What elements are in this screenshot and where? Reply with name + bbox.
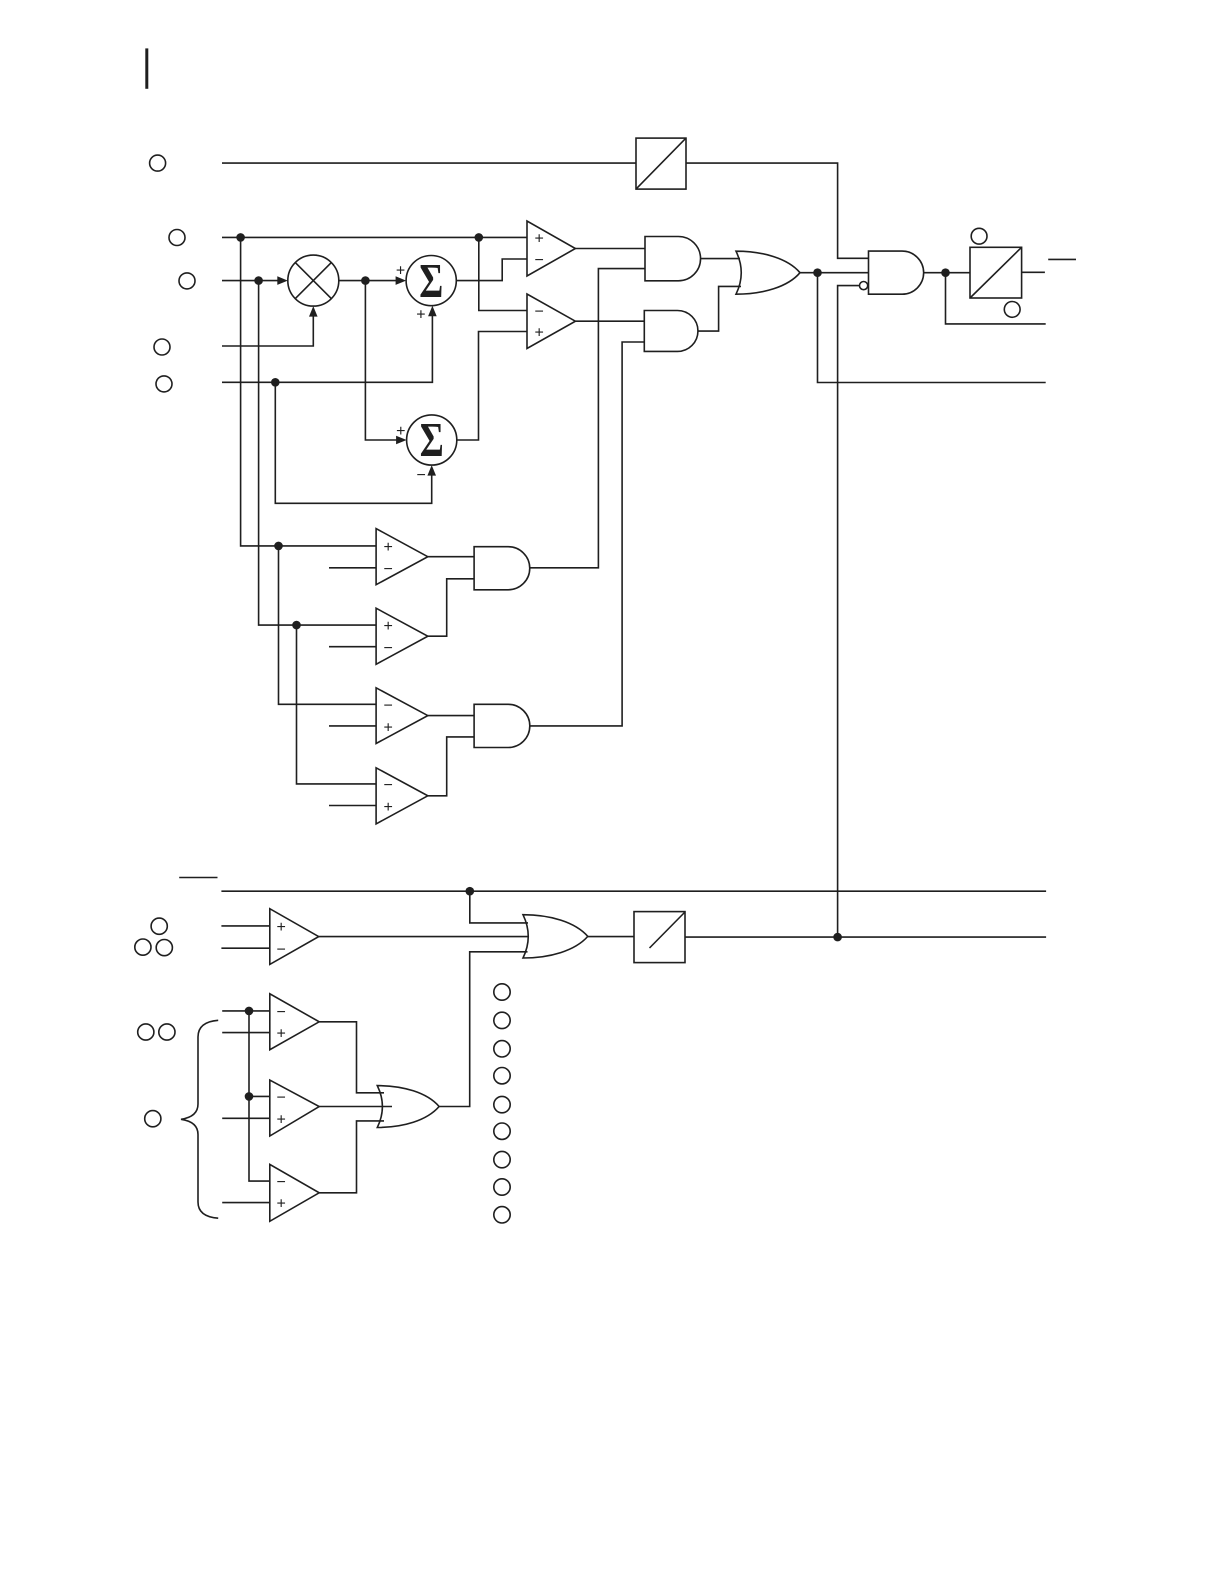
wire: A1 output to OR gate O1 [701, 258, 741, 260]
stub: K4 minus reference input [329, 646, 376, 648]
wire: K5 output to AND gate A4 [428, 715, 474, 717]
terminal circle [135, 939, 151, 955]
wire: T4 to M1 bottom input with arrow [222, 306, 318, 346]
wire: A4 output to A2 lower input [530, 342, 645, 726]
junction dot [475, 233, 484, 242]
terminal circle T2 [169, 230, 185, 246]
wire: K9 output to O3 middle input [319, 1106, 392, 1108]
comparator K4 [376, 608, 428, 664]
NAND gate U1 with inverted input [860, 251, 924, 294]
wire: junction to comparator K9 minus input [249, 1095, 270, 1097]
wire: O1 output to NAND U1 middle input [800, 272, 869, 274]
terminal circle column 8 [494, 1179, 510, 1195]
stub: K6 plus reference input [329, 805, 376, 807]
svg-text:−: − [417, 467, 426, 484]
svg-text:−: − [277, 1004, 286, 1021]
wire: B1 output to NAND U1 top input [686, 163, 869, 258]
wire: K3 output to AND gate A3 [428, 556, 474, 558]
terminal circle column 1 [494, 984, 510, 1000]
svg-text:+: + [277, 919, 286, 936]
terminal circle [145, 1111, 161, 1127]
junction dot [271, 378, 280, 387]
svg-text:−: − [535, 304, 544, 321]
junction dot [292, 621, 301, 630]
terminal circle T4 [154, 339, 170, 355]
wire: K9 plus input [222, 1117, 270, 1119]
junction dot [254, 276, 263, 285]
wire: K4 output to A3 lower input [428, 579, 474, 636]
wire: O2 output to timer block B3 [588, 936, 634, 938]
terminal circle column 9 [494, 1207, 510, 1223]
comparator K5 [376, 688, 428, 744]
svg-text:+: + [384, 618, 393, 635]
wire: K6 output to A4 lower input [428, 737, 474, 796]
terminal circle [138, 1024, 154, 1040]
wire: long bus line [221, 890, 1046, 892]
timer block B2 [970, 247, 1022, 298]
terminal circle above B2 [971, 228, 987, 244]
wire: T3 to multiplier M1 with arrow [222, 276, 288, 285]
junction dot [941, 268, 950, 277]
svg-text:+: + [396, 423, 405, 440]
wire: junction to comparator K2 minus input [479, 237, 527, 310]
summator S1 [396, 253, 456, 324]
stub: K3 minus reference input [329, 567, 376, 569]
OR gate O2 [523, 915, 588, 958]
junction dot [361, 276, 370, 285]
comparator K1 [527, 221, 575, 276]
comparator K6 [376, 768, 428, 824]
wire: K8 output to OR gate O3 top input [319, 1022, 384, 1093]
terminal circle column 2 [494, 1012, 510, 1028]
AND gate A3 [474, 547, 530, 590]
svg-text:−: − [384, 561, 393, 578]
wire: junction down to comparator K10 minus input [249, 1011, 270, 1181]
comparator K2 [527, 294, 575, 349]
junction dot [466, 887, 475, 896]
junction dot [245, 1092, 254, 1101]
wire: K10 plus input [222, 1202, 270, 1204]
OR gate O3 [377, 1086, 439, 1128]
wire: junction to comparator K3 plus input [241, 237, 377, 546]
terminal circle [151, 918, 167, 934]
AND gate A1 [645, 237, 701, 281]
dash segment [179, 877, 217, 879]
svg-text:−: − [277, 941, 286, 958]
comparator K7 [270, 909, 319, 965]
wire: S2 output to comparator K2 plus input [457, 332, 527, 441]
svg-text:−: − [277, 1174, 286, 1191]
timer block B3 [634, 912, 685, 963]
terminal circle column 3 [494, 1041, 510, 1057]
wire: K8 plus input [222, 1032, 270, 1034]
wire: U1 output branch down to right [946, 273, 1046, 324]
wire: junction to comparator K6 minus input [297, 625, 377, 784]
wire: junction to comparator K5 minus input [279, 546, 377, 704]
comparator K3 [376, 529, 428, 585]
timer block B1 [636, 138, 686, 189]
wire: timer B3 output to U1 inverted input [838, 286, 860, 938]
terminal circle T5 [156, 376, 172, 392]
brace for setting group inputs [181, 1020, 218, 1218]
stub: K7 plus input [221, 925, 269, 927]
comparator K10 [270, 1164, 319, 1221]
wire: K8 minus input [222, 1010, 270, 1012]
wire: K1 output to AND gate A1 [575, 248, 645, 250]
svg-text:−: − [384, 640, 393, 657]
wire: junction to summator S2 left input with arrow [365, 281, 406, 445]
wire: K10 output to O3 bottom input [319, 1121, 384, 1193]
comparator K9 [270, 1080, 319, 1136]
terminal circle [156, 940, 172, 956]
wire: O3 output to O2 lower input [439, 952, 527, 1107]
junction dot [245, 1007, 254, 1016]
svg-text:+: + [277, 1196, 286, 1213]
svg-text:+: + [384, 719, 393, 736]
wire: T1 to timer block B1 input [222, 162, 636, 164]
svg-text:Σ: Σ [419, 253, 443, 308]
terminal circle column 4 [494, 1068, 510, 1084]
wire: bus to OR gate O2 top input [470, 891, 528, 923]
wire: U1 output to timer block B2 [924, 272, 970, 274]
terminal circle column 5 [494, 1096, 510, 1112]
wire: A2 output to OR gate O1 lower input [698, 286, 741, 331]
wire: T5 to S1 bottom input with arrow [222, 306, 437, 383]
wire: T2 to comparator K1 plus input [222, 236, 527, 238]
wire: junction to comparator K4 plus input [259, 281, 377, 625]
wire: K7 output to O2 middle input [319, 936, 529, 938]
dash segment top right [1048, 258, 1076, 260]
terminal circle column 6 [494, 1123, 510, 1139]
junction dot [274, 542, 283, 551]
junction dot [236, 233, 245, 242]
multiplier M1 [288, 255, 339, 306]
summator S2 [407, 412, 457, 467]
stub: K5 plus reference input [329, 725, 376, 727]
terminal circle [159, 1024, 175, 1040]
svg-text:+: + [384, 799, 393, 816]
terminal circle T1 [150, 155, 166, 171]
svg-text:−: − [384, 777, 393, 794]
terminal circle below B2 [1004, 302, 1020, 318]
wire: O1 output feedback to right [818, 273, 1046, 383]
wire: S1 output to comparator K1 minus input [456, 259, 527, 281]
stub: K7 minus input [221, 947, 269, 949]
wire: M1 output to summator S1 with arrow [339, 276, 406, 285]
svg-text:+: + [535, 231, 544, 248]
comparator K8 [270, 994, 319, 1050]
terminal circle column 7 [494, 1151, 510, 1167]
svg-text:+: + [396, 262, 405, 279]
wire: A3 output to A1 lower input [530, 269, 645, 568]
svg-text:+: + [384, 539, 393, 556]
svg-text:+: + [416, 307, 425, 324]
wire: B3 output to right [685, 936, 1046, 938]
junction dot [813, 268, 822, 277]
terminal circle T3 [179, 273, 195, 289]
svg-text:−: − [535, 252, 544, 269]
svg-text:+: + [535, 325, 544, 342]
wire: K2 output to AND gate A2 [575, 320, 644, 322]
revision change bar [145, 48, 148, 88]
junction dot [833, 933, 842, 942]
svg-text:−: − [384, 697, 393, 714]
svg-text:+: + [277, 1026, 286, 1043]
svg-text:+: + [277, 1111, 286, 1128]
wire: junction to summator S2 bottom input with arrow [275, 382, 436, 503]
AND gate A4 [474, 704, 530, 747]
wire: B2 output [1022, 271, 1045, 273]
svg-text:−: − [277, 1090, 286, 1107]
AND gate A2 [644, 311, 698, 352]
OR gate O1 [736, 251, 800, 294]
svg-text:Σ: Σ [420, 412, 444, 467]
